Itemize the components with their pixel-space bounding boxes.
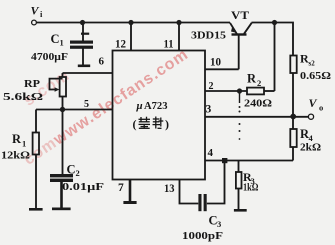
dashed vertical from pin 2 node (239, 93, 241, 103)
resistor R3 bottom lead to ground (238, 189, 240, 210)
svg-text:12kΩ: 12kΩ (1, 151, 30, 162)
node junction pot bottom pin5 (60, 107, 65, 112)
transistor VT base lead down to pin 10 (238, 36, 240, 70)
svg-text:C: C (51, 32, 60, 46)
ground lead pin 7 (129, 180, 132, 202)
wire pin 3 output line to Vo terminal (205, 116, 308, 118)
glyph feng (153, 117, 164, 129)
wire emitter rail to right corner (252, 23, 294, 56)
svg-text:i: i (40, 9, 43, 19)
node junction pin12 on rail (128, 20, 133, 25)
wire pin 11 stub (178, 23, 180, 51)
wire top rail from Vi to transistor collector (37, 22, 231, 24)
resistor R3 top lead (238, 161, 240, 173)
node junction R2 on emitter rail (272, 20, 277, 25)
svg-text:1: 1 (22, 139, 26, 149)
node Vi input terminal (32, 20, 37, 25)
capacitor C3 plates (198, 194, 201, 211)
svg-text:4: 4 (309, 133, 314, 143)
wire pin 13 stub down and right to C3 (180, 180, 199, 204)
svg-text:2: 2 (209, 81, 214, 92)
node junction C3 riser on pin4 line (222, 158, 227, 163)
svg-text:1000pF: 1000pF (182, 231, 223, 242)
svg-text:μ: μ (136, 100, 143, 112)
transistor VT base bar (232, 33, 247, 35)
capacitor C2 lead to ground (60, 182, 63, 208)
resistor R_sc body (290, 56, 296, 74)
capacitor C1 plates (70, 41, 93, 44)
wire right rail R_sc to Vo node (292, 73, 294, 116)
resistor R1 body (33, 133, 39, 155)
node junction pin2 R2 (237, 88, 242, 93)
svg-text:A723: A723 (144, 100, 168, 112)
svg-text:7: 7 (118, 182, 124, 194)
svg-text:1: 1 (60, 38, 64, 48)
node junction pin11 on rail (176, 20, 181, 25)
svg-text:R: R (12, 132, 22, 146)
svg-text:2kΩ: 2kΩ (300, 143, 321, 154)
svg-text:4: 4 (208, 147, 214, 159)
svg-text:11: 11 (164, 37, 174, 51)
op-amp U1 uA723 IC box (113, 51, 206, 180)
resistor R4 body (290, 129, 296, 147)
svg-text:3: 3 (217, 219, 221, 229)
potentiometer RP wiper bracket (50, 79, 63, 90)
ground bar under C1 (78, 65, 90, 68)
ground bar under C2 (52, 208, 71, 211)
ground bar under R1 (29, 208, 43, 211)
potentiometer RP body (60, 77, 66, 97)
wire pin 4 line (205, 160, 293, 162)
component bodies (33, 56, 297, 189)
node Vo terminal (308, 114, 313, 119)
ground bar pin 7 (123, 201, 136, 204)
svg-text:1kΩ: 1kΩ (243, 183, 259, 194)
resistor R2 right lead (264, 90, 275, 92)
svg-text:2: 2 (76, 168, 80, 178)
svg-text:12: 12 (115, 37, 126, 51)
transistor VT emitter diagonal (244, 23, 252, 34)
ground bar under R3 (234, 209, 247, 212)
node junction Vo (290, 114, 296, 120)
potentiometer RP bottom lead down to C2 (62, 97, 64, 175)
wire pin 12 stub (130, 23, 132, 51)
node junction C1 on rail (80, 20, 85, 25)
svg-text:13: 13 (164, 183, 175, 195)
resistor R1 bottom lead to ground (35, 155, 37, 209)
svg-text:C: C (67, 163, 76, 177)
svg-text:V: V (309, 96, 318, 110)
svg-text:VT: VT (231, 8, 249, 22)
svg-text:0.01μF: 0.01μF (62, 182, 104, 193)
wire pin 10 line (205, 68, 239, 70)
transistor emitter arrow (231, 27, 237, 33)
potentiometer RP wiper arrowhead (55, 87, 60, 91)
svg-text:240Ω: 240Ω (244, 99, 272, 110)
svg-text:4700μF: 4700μF (31, 52, 68, 63)
glyph su (139, 117, 151, 129)
svg-text:R: R (247, 72, 257, 86)
capacitor C1 polarity dash (81, 33, 89, 35)
wire C3 riser to pin 4 line (207, 161, 225, 204)
resistor R3 body (236, 172, 242, 189)
resistor R1 top lead (35, 110, 37, 133)
svg-text:s2: s2 (309, 60, 316, 68)
svg-text:5.6kΩ: 5.6kΩ (3, 92, 43, 103)
capacitor C1 lead from rail (82, 23, 84, 41)
transistor VT collector diagonal (230, 23, 237, 34)
wire pin 2 line (205, 90, 247, 92)
wire pin 5 line with R1 branch (36, 109, 113, 111)
svg-text:3: 3 (206, 104, 212, 116)
wire pin 6 line to potentiometer top (63, 72, 113, 74)
capacitor C1 lead to ground (82, 49, 84, 65)
capacitor plates and ground bars (29, 33, 247, 212)
label (su feng) chinese plastic-package text (133, 117, 170, 132)
svg-text:2: 2 (257, 78, 261, 88)
svg-text:): ) (165, 117, 169, 131)
svg-text:5: 5 (84, 99, 89, 110)
dots of dashed vertical (239, 106, 241, 108)
svg-text:RP: RP (24, 78, 40, 90)
svg-text:10: 10 (210, 55, 221, 69)
svg-text:(: ( (133, 117, 137, 131)
capacitor C2 plates (50, 174, 73, 177)
svg-text:V: V (31, 4, 40, 18)
wire right rail Vo node to R4 (292, 117, 294, 129)
svg-text:6: 6 (99, 56, 105, 68)
svg-text:o: o (319, 103, 323, 113)
svg-text:3DD15: 3DD15 (191, 30, 227, 42)
wire R4 bottom to pin4 line (292, 147, 294, 161)
wire R2 to emitter rail (274, 23, 276, 92)
svg-text:0.65Ω: 0.65Ω (300, 71, 331, 82)
potentiometer RP top lead (62, 73, 64, 77)
resistor R2 body (247, 88, 264, 95)
